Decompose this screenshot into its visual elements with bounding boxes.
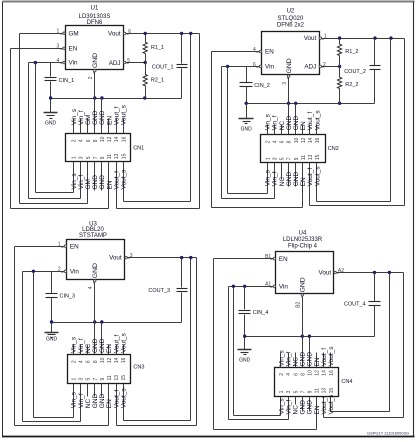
node rail-R2_1 [143,96,146,99]
U2 pin 1 circle [319,37,321,39]
svg-text:7: 7 [300,390,306,393]
svg-text:Vin_s: Vin_s [265,113,272,130]
svg-text:15: 15 [121,153,127,159]
svg-text:Vin: Vin [70,268,79,275]
wire U3 Vout to right [128,257,197,259]
wire EN vertical x=10.1 [10,49,12,209]
svg-text:GND: GND [293,172,300,187]
svg-text:6: 6 [86,360,92,363]
svg-text:GND: GND [45,121,57,127]
svg-text:Vin: Vin [265,64,274,71]
capacitor COUT_2 [374,39,376,66]
node rail-GND stub Q4 [308,335,311,338]
CN3 bottom stubs and net labels [94,384,96,397]
U3 pin 3 circle [125,256,127,258]
svg-text:EN: EN [70,243,79,250]
svg-text:Vout: Vout [318,270,331,277]
wire Vin_f up to CN4 pin 3 [288,397,290,420]
svg-text:4: 4 [286,373,292,376]
svg-text:5: 5 [280,157,286,160]
CN1 bottom stubs GND pins and net labels [94,162,96,191]
node Vin-CIN_4 [243,285,246,288]
svg-text:11: 11 [107,375,113,380]
svg-text:Vout_s: Vout_s [328,346,335,367]
wire EN up to CN3 pin 11 [108,384,110,426]
U2 pin 4 circle [259,50,261,52]
wire GND rail Q2 [247,103,375,105]
svg-text:6: 6 [280,140,286,143]
node Vin junction Q3 [32,270,35,273]
resistor R1_1 [145,34,147,43]
svg-text:13: 13 [114,153,120,159]
wire Vout_s vertical x=190.8 [190,258,192,421]
svg-text:GND: GND [286,172,293,187]
wire EN bottom run Q3 [15,425,109,427]
node Vout-sense [189,32,192,35]
wire Vin_f up to CN1 pin 3 [80,162,82,199]
connector CN4 body [275,368,339,397]
svg-text:GND: GND [300,277,307,292]
svg-text:2: 2 [72,360,78,363]
wire Vin_f vertical x=22.6 [22,272,24,422]
node rail-CIN_3 [50,320,53,323]
svg-text:NC: NC [85,343,92,353]
node Vout-R1_2 [338,36,341,39]
svg-text:9: 9 [100,378,106,381]
svg-text:11: 11 [301,155,307,160]
wire Vout_s up to CN3 pin 15 [123,384,125,421]
U1 pin 1 circle [63,32,65,34]
wire U2 Vin to left [222,66,260,68]
wire Vout_s bottom run Q2 [317,201,391,203]
svg-text:STLQ020: STLQ020 [278,16,304,22]
svg-text:COUT_3: COUT_3 [148,288,170,294]
svg-text:6: 6 [86,139,92,142]
wire EN bottom run Q4 [214,429,317,431]
wire U2 ADJ to divider [322,66,340,68]
wire GND rail Q4 [245,336,375,338]
svg-text:Vout_f: Vout_f [321,396,328,415]
wire GM bottom run [20,203,88,205]
capacitor CIN_1 [50,63,52,77]
wire Vout_f vertical x=199.5 [199,34,201,209]
CN2 bottom stubs and net labels [288,163,290,187]
U1 pin 2 circle [94,69,96,71]
svg-text:14: 14 [308,138,314,144]
border frame [3,1,415,3]
U3 pin 2 circle [64,270,66,272]
U4 pin B2 circle [301,294,303,296]
node Vout-R1_1 [144,32,147,35]
svg-text:2: 2 [72,139,78,142]
capacitor CIN_2 [246,67,248,83]
svg-text:R1_2: R1_2 [345,49,358,55]
svg-text:GND: GND [92,53,99,68]
svg-text:LDLN025J33R: LDLN025J33R [283,237,323,243]
svg-text:12: 12 [107,357,113,363]
svg-text:GND: GND [239,358,251,364]
U3 pin 1 circle [64,245,66,247]
svg-text:U4: U4 [299,231,307,237]
svg-text:GM: GM [85,179,92,189]
svg-text:Vout: Vout [108,30,121,37]
wire Vout_s up to CN1 pin 15 [123,162,125,202]
wire GND rail Q1 [51,98,182,100]
svg-text:GND: GND [99,338,106,353]
svg-text:5: 5 [293,390,299,393]
capacitor CIN_4 [244,287,246,310]
node rail-CIN_1 [49,96,52,99]
svg-text:Vin_f: Vin_f [78,175,85,190]
node Vout-COUT_2 [373,36,376,39]
CN4 bottom stubs and net labels [302,397,304,411]
wire Vin_s vertical x=233.4 [233,287,235,416]
svg-text:7: 7 [93,378,99,381]
svg-text:EN: EN [265,49,274,56]
wire U1 ADJ to resistor divider [126,62,146,64]
svg-text:16: 16 [121,357,127,363]
wire Vin_f bottom run Q2 [222,198,275,200]
svg-text:16: 16 [121,136,127,142]
node Vout-COUT_4 [373,271,376,274]
svg-text:13: 13 [322,388,328,394]
svg-text:GM: GM [69,30,79,37]
svg-text:Vin_f: Vin_f [78,110,85,125]
svg-text:Vout_f: Vout_f [307,168,314,187]
svg-text:GND: GND [307,400,314,415]
svg-text:Vout_s: Vout_s [314,110,321,131]
node Vout-sense Q2 [389,36,392,39]
CN1 top pin stubs and net labels [73,119,75,134]
svg-text:U2: U2 [287,8,295,14]
svg-text:Vin_f: Vin_f [78,393,85,408]
wire U2 Vout to right [322,38,405,40]
svg-text:4: 4 [57,58,60,64]
U1 pin 3 circle [63,47,65,49]
resistor R2_2 [339,67,341,78]
svg-text:3: 3 [79,378,85,381]
op-amp U4 LDLN025J33R body [276,252,334,294]
svg-text:Vout_f: Vout_f [113,390,120,409]
wire Vout_s up to CN4 pin 15 [330,397,332,412]
svg-text:CIN_3: CIN_3 [60,294,76,300]
svg-text:NC: NC [279,121,286,131]
svg-text:GND: GND [92,263,99,278]
svg-text:NC: NC [293,405,300,415]
svg-text:Flip-Chip 4: Flip-Chip 4 [288,243,318,249]
svg-text:3: 3 [79,156,85,159]
wire U1 EN to left [11,48,63,50]
svg-text:GM: GM [85,115,92,125]
U3 pin 4 circle [94,280,96,282]
svg-text:GSPG1T 1110160503G: GSPG1T 1110160503G [367,431,409,436]
svg-text:GND: GND [99,110,106,125]
svg-text:Vout: Vout [109,255,122,262]
connector CN3 body [68,355,131,384]
svg-text:GND: GND [92,338,99,353]
svg-text:Vout_s: Vout_s [120,332,127,353]
svg-text:Vin_s: Vin_s [265,169,272,186]
node Vout-sense Q3 [189,256,192,259]
wire U2 EN to left [212,51,260,53]
U2 pin 2 circle [319,65,321,67]
U4 pin A1 circle [273,285,275,287]
svg-text:14: 14 [114,357,120,363]
svg-text:COUT_2: COUT_2 [344,69,366,75]
wire Vin_s up to CN4 pin 1 [280,397,282,416]
wire Vout_f bottom run Q4 [324,417,404,419]
wire GND stub to CN1 pin 10 [101,99,103,134]
svg-text:13: 13 [114,375,120,381]
node Vout-COUT_3 [180,256,183,259]
svg-text:CN2: CN2 [328,146,339,152]
svg-text:15: 15 [329,388,335,394]
svg-text:EN: EN [314,357,321,366]
wire EN vertical x=14.3 [14,247,16,426]
svg-text:CIN_2: CIN_2 [254,83,270,89]
svg-text:GND: GND [46,337,58,343]
node rail-U4 GND [301,335,304,338]
U1 pin 5 circle [123,61,125,63]
svg-text:DFN6 2x2: DFN6 2x2 [277,23,305,29]
svg-text:Vin_s: Vin_s [71,336,78,353]
wire Vout_f up to CN3 pin 13 [116,384,118,426]
svg-text:10: 10 [100,357,106,363]
svg-text:1: 1 [72,378,78,381]
wire Vout_f bottom run Q3 [117,425,197,427]
wire Vout_f vertical x=405 [404,39,406,206]
CN3 top pin stubs and net labels [73,345,75,355]
wire U3 EN to left [15,246,65,248]
wire EN up to CN1 pin 11 [108,162,110,209]
svg-text:Vout_f: Vout_f [113,106,120,125]
wire U4 Vout to right [337,272,404,274]
node Vin junction Q2 [226,65,229,68]
svg-text:16: 16 [329,370,335,376]
wire Vout_f vertical x=197 [196,258,198,426]
svg-text:9: 9 [100,156,106,159]
svg-text:1: 1 [279,390,285,393]
U2 pin 3 circle [287,75,289,77]
ground Q4 [244,337,246,350]
svg-text:Vout_f: Vout_f [307,112,314,131]
resistor R2_1 [145,63,147,75]
node Vout-COUT_1 [180,32,183,35]
svg-text:ADJ: ADJ [109,60,121,67]
svg-text:5: 5 [86,156,92,159]
svg-text:13: 13 [308,154,314,160]
capacitor CIN_3 [51,272,53,294]
wire GND stub to CN2 pin 10 [295,104,297,135]
node Vout-sense Q4 [388,271,391,274]
wire Vout_s bottom run Q3 [124,420,191,422]
wire Vin_f bottom run Q4 [229,419,289,421]
svg-text:10: 10 [100,136,106,142]
svg-text:ADJ: ADJ [304,64,316,71]
svg-text:CIN_1: CIN_1 [59,78,75,84]
wire Vout_f bottom run [117,208,200,210]
node rail-GND stub [100,96,103,99]
svg-text:EN: EN [106,180,113,189]
wire Vin_s up to CN3 pin 1 [73,384,75,418]
wire GND rail Q3 [52,322,182,324]
svg-text:Vin_s: Vin_s [71,108,78,125]
wire Vin_s vertical x=227.6 [227,67,229,194]
wire Vin_s bottom run Q2 [228,193,268,195]
wire Vout_f vertical x=403.6 [403,273,405,418]
svg-text:11: 11 [107,154,113,159]
wire U4 EN to left [214,258,274,260]
wire Vin_f bottom run Q3 [23,421,81,423]
wire U1 GND pin down to CN1 pin 8 [94,72,96,134]
U1 pin 6 circle [123,32,125,34]
node rail-U1 GND [93,96,96,99]
wire EN up to CN4 pin 11 [316,397,318,430]
svg-text:CN1: CN1 [133,146,144,152]
wire Vin_s vertical x=35.4 [35,63,37,193]
wire Vin_s bottom run Q4 [234,415,281,417]
svg-text:GND: GND [92,175,99,190]
op-amp U2 STLQ020 body [262,32,320,75]
U4 pin A2 circle [334,271,336,273]
svg-text:B2: B2 [296,301,302,307]
wire Vout_s vertical x=389.4 [389,273,391,412]
svg-text:Vout_s: Vout_s [328,394,335,415]
svg-text:Vin_s: Vin_s [71,391,78,408]
svg-text:Vin_f: Vin_f [272,115,279,130]
U1 pin 4 circle [63,61,65,63]
node ADJ junction Q2 [338,65,341,68]
svg-text:EN: EN [279,256,288,263]
svg-text:12: 12 [315,370,321,376]
svg-text:EN: EN [106,344,113,353]
svg-text:B1: B1 [265,254,271,260]
svg-text:GND: GND [241,127,253,133]
wire Vout_s up to CN2 pin 15 [316,163,318,202]
wire GM vertical x=19.6 [19,34,21,204]
wire Vin_s up to CN2 pin 1 [267,163,269,194]
svg-text:GND: GND [92,110,99,125]
svg-text:14: 14 [322,370,328,376]
capacitor COUT_4 [374,273,376,302]
wire U1 GM to left [20,33,63,35]
connector CN2 body [261,135,326,163]
node Vin junction Q4 [232,285,235,288]
svg-text:8: 8 [93,139,99,142]
CN4 top pin stubs and net labels [280,353,282,368]
svg-text:Vin_f: Vin_f [285,400,292,415]
svg-text:EN: EN [69,45,78,52]
svg-text:12: 12 [301,138,307,144]
svg-text:CN4: CN4 [341,379,352,385]
svg-text:9: 9 [294,157,300,160]
wire Vout_s vertical x=391 [390,39,392,202]
wire Vin_f vertical x=28.9 [28,63,30,199]
svg-text:CN3: CN3 [133,365,144,371]
node rail-CIN_4 [243,335,246,338]
node rail-GND stub Q2 [294,102,297,105]
svg-text:COUT_1: COUT_1 [152,64,174,70]
svg-text:EN: EN [314,405,321,414]
svg-text:Vin: Vin [279,284,288,291]
svg-text:1: 1 [265,157,271,160]
svg-text:Vin_f: Vin_f [78,338,85,353]
node Vin junction [34,61,37,64]
svg-text:GND: GND [300,400,307,415]
svg-text:R2_2: R2_2 [345,82,358,88]
svg-text:12: 12 [107,136,113,142]
svg-text:8: 8 [93,360,99,363]
svg-text:EN: EN [300,177,307,186]
svg-text:15: 15 [121,375,127,381]
svg-text:11: 11 [315,388,321,393]
svg-text:Vin_s: Vin_s [278,350,285,367]
svg-text:EN: EN [106,399,113,408]
ground Q1 [50,99,52,113]
node rail-R2_2 [338,102,341,105]
svg-text:16: 16 [315,138,321,144]
wire Vin_s vertical x=33.4 [33,272,35,418]
capacitor COUT_3 [181,258,183,288]
svg-text:Vin_s: Vin_s [278,398,285,415]
wire EN bottom run Q2 [212,207,303,209]
svg-text:2: 2 [88,76,94,79]
svg-text:Vin_s: Vin_s [71,173,78,190]
svg-text:5: 5 [86,378,92,381]
wire U4 Vin to left [229,286,274,288]
svg-text:CIN_4: CIN_4 [253,310,269,316]
svg-text:1: 1 [72,156,78,159]
svg-text:Vout_f: Vout_f [113,171,120,190]
svg-text:GND: GND [286,58,293,73]
svg-text:Vin_f: Vin_f [285,352,292,367]
U2 pin 6 circle [259,65,261,67]
wire EN vertical x=211.5 [211,52,213,208]
wire Vin_s bottom run [36,192,74,194]
svg-text:Vout_f: Vout_f [113,334,120,353]
svg-text:6: 6 [293,373,299,376]
op-amp U1 LD391303S body [66,26,124,70]
wire EN up to CN2 pin 11 [302,163,304,208]
svg-text:GND: GND [92,393,99,408]
svg-text:10: 10 [294,138,300,144]
svg-text:2: 2 [279,373,285,376]
svg-text:GND: GND [293,116,300,131]
svg-text:4: 4 [88,286,94,289]
svg-text:GND: GND [307,352,314,367]
svg-text:STSTAMP: STSTAMP [79,233,107,239]
connector CN1 body [66,134,131,162]
svg-text:4: 4 [79,360,85,363]
ground Q2 [246,104,248,119]
ground Q3 [51,323,53,333]
svg-text:15: 15 [315,154,321,160]
wire Vin_f bottom run [29,198,81,200]
svg-text:Vout_f: Vout_f [321,348,328,367]
svg-text:10: 10 [308,370,314,376]
svg-text:NC: NC [85,399,92,409]
svg-text:Vout_s: Vout_s [314,166,321,187]
U4 pin B1 circle [273,258,275,260]
svg-text:7: 7 [93,156,99,159]
wire U2 GND pin down to CN2 pin 8 [288,78,290,135]
svg-text:Vin_f: Vin_f [272,171,279,186]
CN2 top pin stubs and net labels [267,125,269,135]
wire Vout_s bottom run [124,201,191,203]
svg-text:14: 14 [114,136,120,142]
wire EN bottom run [11,208,109,210]
node ADJ junction [144,61,147,64]
